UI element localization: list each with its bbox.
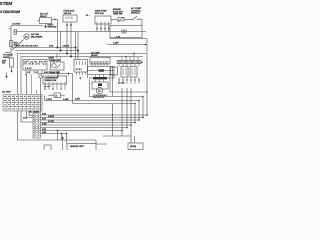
svg-text:A/C UNIT: A/C UNIT — [2, 91, 11, 94]
resistor pins — [77, 72, 86, 75]
svg-text:1.25B: 1.25B — [63, 99, 69, 101]
svg-text:M: M — [98, 89, 100, 93]
svg-text:0.85Y: 0.85Y — [75, 98, 81, 100]
table feeds — [26, 75, 28, 95]
bottom small box — [44, 145, 51, 151]
condenser fan motor — [96, 87, 102, 93]
svg-text:A/C: A/C — [25, 36, 29, 39]
corner wires left — [17, 54, 19, 95]
cascade v127 — [126, 88, 128, 128]
bottom bus 6 — [41, 127, 128, 129]
svg-text:(ECM): (ECM) — [130, 146, 136, 148]
svg-text:0.5R: 0.5R — [42, 129, 47, 131]
bottom bus 5 — [41, 124, 132, 126]
bottom bus 2 — [41, 117, 144, 119]
fuse box F — [63, 15, 77, 22]
junction squares L3 L4 — [66, 53, 68, 55]
cascade v143 — [142, 97, 144, 118]
svg-text:BLOWER: BLOWER — [13, 24, 21, 26]
bus end dots — [146, 114, 148, 116]
svg-text:0.5: 0.5 — [27, 72, 30, 74]
node tick — [5, 52, 10, 54]
node drop 2 — [60, 32, 62, 51]
connector on relay wire — [54, 19, 55, 21]
heater unit box top — [11, 26, 43, 59]
condenser fan relay box — [92, 82, 108, 89]
collector y104 — [73, 103, 136, 105]
blower resistor box — [74, 60, 88, 73]
fan left wire — [90, 80, 97, 97]
fuse pin 2 — [70, 22, 72, 57]
wire relay left stub — [37, 20, 40, 22]
relay K1 — [40, 18, 52, 24]
wire thermistor to switch — [124, 19, 131, 21]
svg-text:0.5W: 0.5W — [42, 123, 47, 125]
svg-text:(EVAP): (EVAP) — [91, 54, 98, 57]
amp pins — [92, 64, 107, 67]
svg-text:(BLOWER): (BLOWER) — [31, 37, 42, 39]
controller pins — [26, 70, 42, 75]
bottom right box — [128, 143, 143, 150]
thermistor RT — [118, 17, 124, 21]
ecm feed — [103, 135, 131, 137]
right small box 3 — [130, 67, 137, 78]
bus L3 — [18, 53, 147, 55]
cascade v122 — [121, 88, 123, 131]
bar risers — [122, 54, 138, 61]
svg-text:0.85L: 0.85L — [49, 45, 54, 47]
svg-text:MODULE: MODULE — [131, 13, 140, 15]
bottom bus 4 — [41, 122, 136, 124]
svg-text:GROUND: GROUND — [48, 27, 57, 29]
main fuse pins — [97, 24, 109, 32]
svg-text:IG→: IG→ — [86, 15, 90, 17]
right small box 1 — [111, 67, 118, 75]
cascade v139 — [138, 101, 140, 121]
condenser fan bar — [96, 75, 104, 78]
amplifier box — [90, 58, 110, 65]
pins below right boxes — [119, 77, 139, 84]
bottom bus 3 — [41, 119, 140, 121]
svg-text:IG BLW A/C ILL: IG BLW A/C ILL — [24, 63, 47, 66]
drop to lower connector — [40, 78, 42, 113]
riser 110 — [109, 67, 111, 93]
ground under relay — [45, 24, 47, 27]
svg-text:0.5: 0.5 — [35, 72, 38, 74]
wire relay to node — [52, 19, 58, 21]
fuse on left edge — [10, 41, 13, 47]
main fuse box — [95, 16, 111, 24]
svg-text:0.85 G/R 0.5 G/W: 0.85 G/R 0.5 G/W — [44, 72, 60, 74]
connector kick — [62, 136, 64, 151]
cascade v131 — [130, 88, 132, 125]
thermo arrow down — [57, 70, 59, 76]
svg-text:1 2 3 4 5: 1 2 3 4 5 — [118, 83, 125, 85]
diagonal wire — [12, 40, 24, 51]
lower connector column — [33, 113, 41, 138]
long drop — [72, 74, 74, 104]
bus line B — [17, 31, 147, 33]
left L wire — [18, 111, 57, 140]
bottom rail — [56, 139, 96, 141]
thermo box — [54, 54, 61, 63]
svg-text:0.5G/R: 0.5G/R — [48, 116, 55, 118]
node relay drop — [57, 20, 59, 48]
drop 57 — [57, 131, 59, 141]
collector y100 — [45, 100, 140, 102]
amp wires — [88, 66, 115, 68]
svg-text:HEATER UNIT: HEATER UNIT — [70, 145, 85, 148]
small box above — [54, 93, 61, 98]
svg-text:0.5Y/B: 0.5Y/B — [48, 121, 54, 123]
left stub wire — [21, 111, 33, 122]
right small box 2 — [121, 67, 128, 78]
collector y96 — [96, 96, 143, 98]
connector table — [3, 95, 42, 112]
bottom bus 7 — [41, 130, 123, 132]
collector y92 — [110, 91, 147, 93]
bus L1 — [12, 47, 76, 49]
svg-text:1.25 B: 1.25 B — [46, 99, 52, 101]
compressor pins — [45, 84, 65, 90]
ground arrow left — [11, 67, 13, 71]
cascade v147 — [146, 39, 148, 116]
wire right upper — [110, 38, 147, 40]
bus L2 — [15, 50, 78, 52]
wire to thermistor — [111, 19, 118, 21]
compressor box — [43, 76, 67, 84]
svg-text:NOISE: NOISE — [3, 57, 10, 59]
drop right pair — [75, 32, 77, 60]
bottom mid box — [67, 144, 96, 152]
compressor wire top — [38, 73, 73, 75]
bus L4 — [21, 56, 143, 58]
bottom bus 1 — [41, 114, 148, 116]
svg-text:G DIAGRAM: G DIAGRAM — [0, 9, 21, 14]
drop 61 — [61, 134, 63, 141]
connector on line B — [122, 30, 126, 33]
svg-text:0.5G: 0.5G — [42, 113, 47, 115]
svg-text:4 3 2 1: 4 3 2 1 — [76, 68, 83, 71]
bottom rail drop — [96, 140, 107, 144]
svg-text:TEMP SW: TEMP SW — [113, 14, 122, 16]
svg-text:A/C SW: A/C SW — [31, 33, 40, 36]
noise filter box — [10, 58, 14, 67]
left stubs to table — [29, 111, 33, 115]
compressor box — [110, 26, 142, 38]
cascade v135 — [134, 104, 136, 123]
wire switch down — [138, 19, 142, 25]
fuse pin 1 — [66, 22, 68, 54]
hatch bar right — [117, 61, 141, 64]
svg-text:STEM: STEM — [0, 1, 12, 6]
bottom bus 8 — [41, 133, 67, 135]
blower switch circle — [24, 34, 29, 39]
svg-text:THERMO SW: THERMO SW — [49, 60, 61, 62]
junction dot — [145, 44, 147, 46]
ground arrow 2 — [6, 73, 8, 77]
svg-text:1 4 3 2: 1 4 3 2 — [25, 67, 32, 70]
svg-text:BOX 80A: BOX 80A — [95, 12, 104, 15]
connector block — [14, 30, 17, 32]
svg-text:a b c d e: a b c d e — [44, 86, 51, 88]
svg-text:0.5B: 0.5B — [42, 132, 47, 134]
pressure switch S — [131, 19, 132, 20]
svg-text:15A A/C: 15A A/C — [64, 12, 72, 15]
right box pins top — [119, 64, 139, 67]
wire right lower — [107, 44, 147, 46]
svg-text:A/C CONT: A/C CONT — [29, 110, 39, 113]
svg-text:THERMO SW: THERMO SW — [45, 80, 57, 82]
controller box — [23, 60, 47, 71]
svg-text:0.85L/B: 0.85L/B — [63, 45, 70, 47]
